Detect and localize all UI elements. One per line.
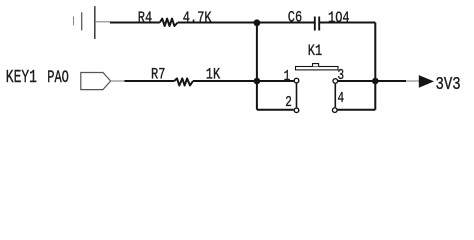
switch pin 4 circle — [333, 108, 338, 113]
capacitor C6 — [315, 17, 319, 31]
resistor R4 — [160, 19, 178, 26]
svg-text:R4: R4 — [138, 9, 152, 27]
switch pin 1 circle — [294, 78, 299, 83]
wire pin3 to junction — [338, 80, 375, 82]
wire bottom horizontal left — [125, 80, 175, 82]
node junction bottom-right — [372, 78, 379, 85]
svg-text:4.7K: 4.7K — [183, 9, 212, 27]
wire power pin stub — [406, 80, 419, 82]
wire top horizontal left — [110, 22, 160, 24]
node junction top-left — [254, 19, 261, 26]
wire top horizontal middle — [178, 22, 314, 24]
wire port pin stub — [111, 80, 125, 82]
wire right vertical drop — [374, 23, 376, 110]
wire to pin2 — [257, 109, 294, 111]
svg-text:1: 1 — [284, 68, 291, 85]
svg-text:2: 2 — [285, 94, 292, 111]
wire left vertical drop — [256, 23, 258, 110]
node junction bottom-left — [254, 78, 261, 85]
resistor R7 — [174, 78, 193, 85]
switch K1 button bar — [296, 67, 339, 70]
svg-text:PAO: PAO — [47, 67, 69, 88]
svg-text:R7: R7 — [151, 66, 165, 84]
wire switch internal link pins 1-2 — [296, 83, 298, 107]
wire switch internal link pins 3-4 — [334, 84, 336, 108]
wire top horizontal right — [320, 22, 375, 24]
ground — [74, 6, 95, 39]
wire bottom horizontal middle — [193, 80, 294, 82]
port PA0 pentagon — [81, 73, 111, 90]
svg-text:4: 4 — [338, 89, 345, 106]
wire ground pin stub — [95, 21, 111, 23]
wire pin4 to right riser — [338, 109, 376, 111]
wire junction to power stub — [375, 80, 406, 82]
svg-text:3: 3 — [338, 66, 345, 83]
power 3V3 arrow — [419, 75, 434, 88]
svg-text:KEY1: KEY1 — [6, 67, 37, 88]
switch K1 button bump — [313, 64, 319, 67]
switch pin 2 circle — [294, 108, 299, 113]
switch pin 3 circle — [333, 79, 338, 84]
svg-text:3V3: 3V3 — [436, 74, 461, 95]
svg-text:K1: K1 — [308, 43, 322, 61]
svg-text:C6: C6 — [288, 9, 302, 27]
svg-text:1O4: 1O4 — [328, 9, 350, 27]
